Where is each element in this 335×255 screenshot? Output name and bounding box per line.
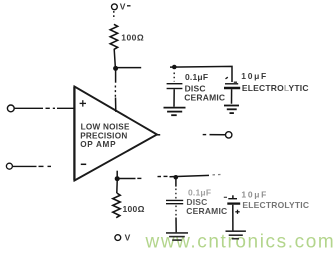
svg-text:10μF: 10μF xyxy=(241,189,268,199)
wire op-amp bottom to V+ node xyxy=(116,171,118,181)
svg-text:PRECISION: PRECISION xyxy=(80,131,127,140)
svg-text:CERAMIC: CERAMIC xyxy=(184,92,225,102)
svg-text:100Ω: 100Ω xyxy=(123,204,145,214)
terminal V+ (bottom) xyxy=(115,235,121,241)
ground G4 xyxy=(226,230,246,232)
wire op-amp output stub xyxy=(157,134,160,136)
wire node to C1 (faded) xyxy=(173,73,175,82)
wire C3 to ground (faded then solid) xyxy=(175,206,177,218)
wire R1 to node xyxy=(114,49,115,68)
node junction above C3 xyxy=(174,175,179,180)
wire node to R2 xyxy=(116,181,118,193)
wire bottom rail faded dashes to C4 xyxy=(213,173,224,176)
wire bottom rail left segment xyxy=(117,178,135,180)
svg-text:OP AMP: OP AMP xyxy=(80,140,116,149)
svg-text:0.1μF: 0.1μF xyxy=(185,72,208,82)
resistor R2 xyxy=(113,193,120,218)
wire bottom rail right segment xyxy=(170,175,210,176)
plus polarity mark C4 xyxy=(235,211,239,213)
minus of V- xyxy=(127,5,131,7)
capacitor C2 10uF electrolytic top plate tick xyxy=(226,77,228,79)
node junction bottom xyxy=(115,176,120,181)
wire C2 to ground xyxy=(231,89,233,104)
op-amp - input mark xyxy=(81,163,86,165)
svg-text:LOW NOISE: LOW NOISE xyxy=(81,122,130,131)
svg-text:CERAMIC: CERAMIC xyxy=(186,206,227,216)
svg-text:10μF: 10μF xyxy=(241,71,268,81)
node junction top xyxy=(113,66,118,71)
svg-text:V: V xyxy=(120,1,126,11)
svg-text:100Ω: 100Ω xyxy=(121,32,144,42)
wire top rail right segment xyxy=(170,66,232,82)
wire output dashes xyxy=(203,134,207,136)
capacitor C4 10uF electrolytic xyxy=(228,198,237,200)
wire stub above C4 xyxy=(232,195,234,198)
svg-text:V: V xyxy=(125,232,131,242)
svg-text:0.1μF: 0.1μF xyxy=(188,188,211,198)
ground G3 xyxy=(166,232,188,234)
svg-text:ELECTROLYTIC: ELECTROLYTIC xyxy=(242,83,309,93)
op-amp U1 xyxy=(75,87,158,181)
wire V- terminal to R1 (faded dashes) xyxy=(113,11,115,20)
capacitor C2 10uF electrolytic xyxy=(225,83,238,85)
ground G1 xyxy=(164,107,186,109)
terminal V- xyxy=(112,4,118,10)
node junction above C1 xyxy=(172,65,177,70)
ground G2 xyxy=(224,105,239,107)
op-amp + input mark xyxy=(80,102,86,104)
output terminal xyxy=(226,132,232,138)
wire C1 to ground xyxy=(173,89,175,107)
capacitor C4 10uF electrolytic tick xyxy=(224,196,227,198)
wire top rail left segment xyxy=(116,67,142,69)
capacitor C1 0.1uF disc xyxy=(167,83,183,85)
wire C4 to ground xyxy=(232,205,234,231)
input terminal + (top left) xyxy=(7,105,14,112)
wire input - (faded) xyxy=(13,165,37,167)
input terminal - (bottom left) xyxy=(6,163,12,169)
wire input + xyxy=(15,107,43,109)
resistor R1 xyxy=(110,24,117,49)
wire node to C3 xyxy=(175,179,177,187)
capacitor C3 0.1uF disc xyxy=(166,199,183,201)
wire bottom rail middle dashes xyxy=(158,176,162,178)
wire V- rail into op-amp top xyxy=(115,69,117,83)
svg-text:ELECTROLYTIC: ELECTROLYTIC xyxy=(242,200,309,210)
